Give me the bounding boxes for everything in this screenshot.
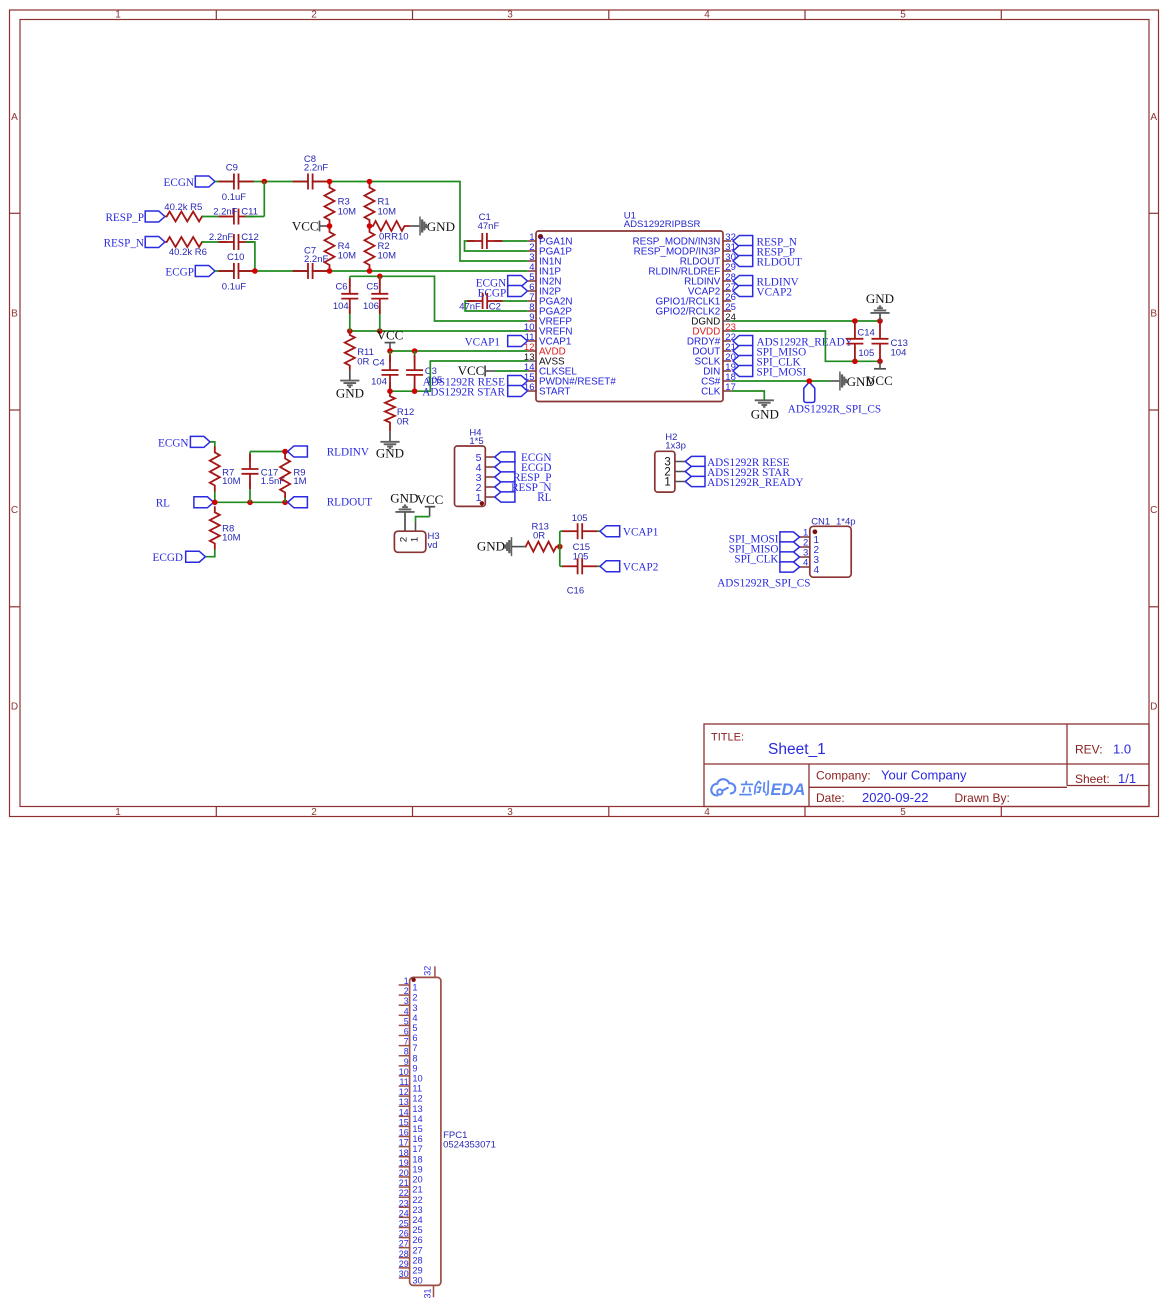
- svg-text:10M: 10M: [222, 532, 241, 543]
- svg-text:B: B: [11, 309, 18, 320]
- power flag VCC at AVDD: [377, 328, 404, 351]
- svg-text:4: 4: [814, 565, 820, 576]
- net flag VCAP2 at pin 27: [733, 286, 792, 299]
- svg-text:29: 29: [399, 1259, 409, 1269]
- U1 pin 10 (VREFN): [524, 322, 573, 338]
- U1 pin 16 (START): [524, 382, 571, 398]
- FPC1 pin 25: [399, 1218, 423, 1235]
- svg-text:SPI_CLK: SPI_CLK: [734, 553, 778, 565]
- net flag RESP_N at pin 32: [733, 236, 797, 249]
- svg-text:10M: 10M: [338, 251, 357, 262]
- junction C17 bottom: [247, 500, 253, 506]
- net flag ADS1292R RESE at pin 15: [423, 376, 528, 389]
- U1 pin 4 (IN1P): [528, 262, 562, 278]
- resistor R13 0R: [525, 521, 558, 551]
- svg-text:vd: vd: [428, 540, 438, 551]
- FPC1 pin 21: [399, 1178, 423, 1195]
- svg-text:28: 28: [412, 1255, 422, 1265]
- wire R8 to ECGD flag: [205, 549, 214, 556]
- svg-text:104: 104: [371, 377, 387, 388]
- svg-text:C10: C10: [227, 252, 244, 263]
- wire R9 bottom: [284, 498, 286, 502]
- svg-text:24: 24: [412, 1215, 422, 1225]
- svg-text:47nF: 47nF: [459, 302, 481, 313]
- net flag ECGD: [153, 551, 206, 564]
- wire junction down to C11: [263, 182, 265, 217]
- svg-text:4: 4: [404, 1006, 409, 1016]
- title block: [704, 724, 1149, 807]
- svg-text:RESP_N: RESP_N: [104, 237, 144, 249]
- svg-text:11: 11: [399, 1077, 408, 1087]
- power flag VCC at R3/R4 node: [292, 219, 330, 234]
- net flag ADS1292R_SPI_CS: [788, 382, 881, 416]
- U1 pin 11 (VCAP1): [525, 332, 572, 348]
- svg-text:15: 15: [399, 1117, 409, 1127]
- svg-text:ECGP: ECGP: [165, 266, 194, 278]
- FPC1 pin 9: [399, 1057, 418, 1074]
- svg-text:12: 12: [412, 1094, 422, 1104]
- ground GND at CS# (sideways): [830, 372, 875, 391]
- U1 pin 30 (RLDOUT): [680, 252, 736, 268]
- svg-text:20: 20: [399, 1168, 409, 1178]
- svg-text:2: 2: [399, 537, 410, 542]
- wire RL rail: [215, 501, 285, 503]
- FPC1 pin 12: [399, 1087, 423, 1104]
- CN1 pin 1: [800, 528, 820, 546]
- FPC1 pin 20: [399, 1168, 423, 1185]
- U1 pin 1 (PGA1N): [528, 232, 573, 248]
- resistor R5 40.2k: [164, 202, 203, 222]
- svg-text:ECGN: ECGN: [164, 177, 194, 189]
- U1 pin 18 (CS#): [701, 372, 736, 388]
- svg-text:30: 30: [399, 1269, 409, 1279]
- svg-text:ECGN: ECGN: [158, 437, 188, 449]
- svg-text:47nF: 47nF: [478, 221, 500, 232]
- net flag ADS1292R STAR at H2 pin 2: [685, 466, 790, 479]
- H4 pin 2: [476, 482, 495, 494]
- svg-text:23: 23: [399, 1198, 409, 1208]
- junction C14 top: [852, 318, 858, 324]
- svg-text:REV:: REV:: [1075, 743, 1103, 757]
- svg-text:ADS1292R_SPI_CS: ADS1292R_SPI_CS: [717, 578, 810, 590]
- svg-text:1x3p: 1x3p: [665, 440, 686, 451]
- wire C16 to VCAP2 flag: [597, 565, 600, 567]
- U1 pin 29 (RLDIN/RLDREF): [648, 262, 735, 278]
- svg-text:5: 5: [900, 807, 906, 818]
- svg-text:104: 104: [333, 301, 349, 312]
- net flag RLDINV at pin 28: [733, 276, 799, 289]
- junction C3 top: [412, 348, 418, 354]
- net flag RESP_N at H4 pin 2: [495, 482, 552, 494]
- svg-text:1: 1: [410, 537, 421, 542]
- FPC1 pin 31 (bottom): [422, 1285, 433, 1298]
- wire DGND (pin 24) to C14/C13 top rail: [731, 320, 880, 322]
- net flag ECGN: [164, 176, 215, 189]
- svg-text:1/1: 1/1: [1118, 771, 1136, 786]
- connector H4 1*5: [455, 428, 486, 507]
- svg-text:24: 24: [399, 1208, 409, 1218]
- svg-text:ECGP: ECGP: [478, 287, 507, 299]
- net flag RLDOUT: [288, 497, 373, 509]
- ground GND below R12: [376, 431, 404, 460]
- svg-text:18: 18: [399, 1148, 409, 1158]
- FPC1 pin 14: [399, 1107, 423, 1124]
- FPC1 pin 18: [399, 1148, 423, 1165]
- H2 pin 3: [664, 457, 685, 469]
- svg-text:17: 17: [399, 1138, 409, 1148]
- svg-text:0R: 0R: [397, 417, 409, 428]
- svg-text:ECGD: ECGD: [153, 552, 183, 564]
- wire C11 to ECGN node: [246, 216, 265, 218]
- svg-text:7: 7: [404, 1037, 409, 1047]
- FPC1 pin 24: [399, 1208, 423, 1225]
- net flag ECGN (lower block): [158, 436, 210, 449]
- svg-text:23: 23: [412, 1205, 422, 1215]
- svg-text:1: 1: [404, 976, 409, 986]
- svg-text:C16: C16: [567, 585, 584, 596]
- wire C1 to pin 1: [495, 240, 528, 242]
- svg-text:VCC: VCC: [292, 219, 319, 234]
- net flag ECGN at H4 pin 5: [495, 452, 552, 464]
- wire node to C15: [560, 530, 563, 532]
- svg-text:RLDOUT: RLDOUT: [757, 256, 803, 268]
- ground GND above C13: [866, 291, 894, 321]
- svg-text:0524353071: 0524353071: [443, 1139, 496, 1150]
- svg-text:4: 4: [803, 558, 808, 569]
- svg-text:9: 9: [412, 1063, 417, 1073]
- capacitor C17 1.5nF: [242, 452, 286, 503]
- net flag ECGN at pin 5: [476, 276, 528, 290]
- svg-text:SPI_MOSI: SPI_MOSI: [757, 366, 807, 378]
- svg-text:10: 10: [412, 1074, 422, 1084]
- power flag VCC below C13: [866, 361, 893, 388]
- U1 pin 32 (RESP_MODN/IN3N): [633, 232, 736, 248]
- wire H3 pin1 lead: [415, 523, 417, 532]
- svg-text:7: 7: [412, 1043, 417, 1053]
- svg-text:2.2nF: 2.2nF: [304, 254, 328, 265]
- FPC1 pin 15: [399, 1117, 423, 1134]
- FPC1 pin 19: [399, 1158, 423, 1175]
- svg-text:8: 8: [412, 1053, 417, 1063]
- wire CLK (pin 17) to GND: [731, 391, 764, 400]
- svg-text:2.2nF: 2.2nF: [209, 232, 233, 243]
- svg-text:GND: GND: [390, 491, 418, 506]
- svg-text:16: 16: [399, 1128, 409, 1138]
- svg-text:104: 104: [891, 347, 907, 358]
- svg-text:Drawn By:: Drawn By:: [955, 791, 1010, 805]
- resistor R2 10M: [365, 226, 397, 271]
- svg-text:C: C: [11, 505, 18, 516]
- svg-text:GND: GND: [866, 291, 894, 306]
- svg-text:5: 5: [412, 1023, 417, 1033]
- svg-text:Date:: Date:: [816, 791, 845, 805]
- junction C3 bottom: [412, 388, 418, 394]
- svg-text:B: B: [1150, 309, 1157, 320]
- svg-text:1: 1: [476, 492, 482, 504]
- U1 pin 9 (VREFP): [528, 312, 573, 328]
- svg-text:1.0: 1.0: [1113, 742, 1131, 757]
- FPC1 pin 16: [399, 1128, 423, 1145]
- capacitor C13 104: [872, 321, 908, 361]
- svg-text:Sheet:: Sheet:: [1075, 772, 1110, 786]
- svg-text:1*5: 1*5: [469, 436, 483, 447]
- svg-text:8: 8: [404, 1047, 409, 1057]
- svg-text:9: 9: [404, 1057, 409, 1067]
- FPC1 pin 1: [399, 976, 418, 993]
- svg-text:105: 105: [858, 348, 874, 359]
- net flag VCAP1: [600, 526, 658, 539]
- svg-text:30: 30: [412, 1276, 422, 1286]
- FPC1 pin 22: [399, 1188, 423, 1205]
- svg-text:25: 25: [412, 1225, 422, 1235]
- wire ECGP row to IN1P (pin 4): [215, 270, 528, 272]
- capacitor C9 0.1uF: [219, 163, 254, 203]
- junction C13 top / GND: [877, 318, 883, 324]
- svg-text:25: 25: [399, 1218, 409, 1228]
- capacitor C1 47nF: [467, 212, 502, 249]
- svg-text:D: D: [1150, 702, 1157, 713]
- U1 pin 20 (SCLK): [695, 352, 736, 368]
- svg-text:ADS1292R STAR: ADS1292R STAR: [422, 386, 505, 398]
- junction RLDINV / R9 top: [282, 449, 288, 455]
- svg-text:RL: RL: [156, 498, 170, 510]
- U1 pin 7 (PGA2N): [528, 292, 573, 308]
- svg-text:1M: 1M: [293, 476, 306, 487]
- capacitor C14 105: [846, 321, 874, 361]
- svg-text:4: 4: [704, 807, 710, 818]
- junction R13/C15/C16: [557, 544, 563, 550]
- resistor R8 10M: [210, 506, 241, 549]
- junction C5 bottom: [377, 328, 383, 334]
- resistor R11 0R: [345, 331, 374, 370]
- svg-text:31: 31: [422, 1288, 432, 1298]
- FPC1 pin 23: [399, 1198, 423, 1215]
- svg-text:TITLE:: TITLE:: [711, 732, 744, 744]
- net flag RL at H4 pin 1: [495, 492, 552, 504]
- svg-text:2: 2: [311, 807, 317, 818]
- net flag at CN1 pin 1: [729, 532, 800, 546]
- U1 pin 15 (PWDN#/RESET#): [524, 372, 616, 388]
- FPC1 pin 3: [399, 996, 418, 1013]
- FPC1 pin 13: [399, 1097, 423, 1114]
- svg-text:GND: GND: [336, 386, 364, 401]
- resistor R3 10M: [325, 182, 357, 227]
- junction R1 top: [367, 179, 373, 185]
- svg-text:27: 27: [412, 1245, 422, 1255]
- svg-text:A: A: [1150, 112, 1157, 123]
- resistor R10 0R: [372, 221, 410, 243]
- U1 pin 26 (GPIO1/RCLK1): [656, 292, 736, 308]
- CN1 pin 4: [800, 558, 820, 576]
- U1 pin 22 (DRDY#): [687, 332, 736, 348]
- wire R6 to C12: [202, 241, 227, 243]
- svg-text:21: 21: [399, 1178, 409, 1188]
- net flag ADS1292R RESE at H2 pin 3: [685, 456, 789, 469]
- capacitor C12 2.2nF: [209, 232, 259, 250]
- resistor R6 40.2k: [165, 237, 207, 258]
- FPC1 pin 26: [399, 1229, 423, 1246]
- FPC1 pin 8: [399, 1047, 418, 1064]
- U1 pin 27 (VCAP2): [688, 282, 736, 298]
- resistor R1 10M: [365, 182, 397, 227]
- svg-text:10: 10: [399, 1067, 409, 1077]
- svg-text:12: 12: [399, 1087, 409, 1097]
- svg-text:16: 16: [524, 382, 535, 393]
- wire pin8 loop: [465, 301, 528, 311]
- net flag at CN1 pin 3: [734, 552, 799, 566]
- svg-text:11: 11: [412, 1084, 422, 1094]
- wire AVSS (pin 13) to C3/C4 bottom rail: [390, 361, 528, 391]
- H4 pin 4: [476, 462, 495, 474]
- svg-text:RLDINV: RLDINV: [327, 446, 369, 458]
- op-amp/afe U1 ADS1292RIPBSR: [536, 211, 723, 402]
- ground GND at R13 (sideways): [477, 537, 525, 556]
- svg-text:3: 3: [507, 9, 513, 20]
- capacitor C8 2.2nF: [293, 154, 329, 190]
- svg-text:19: 19: [412, 1164, 422, 1174]
- junction VCC/C4 top: [387, 348, 393, 354]
- FPC1 pin 29: [399, 1259, 423, 1276]
- svg-text:13: 13: [399, 1097, 409, 1107]
- svg-text:105: 105: [572, 513, 588, 524]
- net flag ECGD at H4 pin 4: [495, 462, 552, 474]
- svg-text:1: 1: [412, 983, 417, 993]
- svg-text:GND: GND: [427, 219, 455, 234]
- U1 pin 28 (RLDINV): [684, 272, 736, 288]
- wire CS# (pin 18) to GND: [731, 380, 829, 382]
- svg-text:10M: 10M: [378, 206, 397, 217]
- U1 pin 31 (RESP_MODP/IN3P): [634, 242, 736, 258]
- svg-text:0R: 0R: [533, 531, 545, 542]
- svg-text:0R: 0R: [357, 357, 369, 368]
- svg-text:14: 14: [412, 1114, 422, 1124]
- svg-text:CLK: CLK: [701, 387, 721, 398]
- svg-text:10M: 10M: [222, 476, 241, 487]
- net flag ECGP at pin 6: [478, 286, 528, 300]
- U1 pin 25 (GPIO2/RCLK2): [656, 302, 736, 318]
- capacitor C6 104: [333, 276, 358, 331]
- H2 pin 1: [664, 477, 685, 489]
- svg-text:40.2k R6: 40.2k R6: [169, 247, 207, 258]
- svg-text:C14: C14: [857, 327, 874, 338]
- svg-text:ADS1292R_READY: ADS1292R_READY: [707, 477, 803, 489]
- junction R9 bottom / RLDOUT: [282, 500, 288, 506]
- svg-text:40.2k R5: 40.2k R5: [164, 202, 202, 213]
- wire DVDD (pin 23) to C14/C13 bottom rail: [731, 331, 880, 361]
- junction R1/R10 node: [367, 223, 373, 229]
- svg-text:13: 13: [412, 1104, 422, 1114]
- svg-text:2020-09-22: 2020-09-22: [862, 790, 929, 805]
- net flag RESP_P at H4 pin 3: [495, 472, 552, 484]
- svg-text:RL: RL: [537, 492, 551, 504]
- junction node C9/C11: [262, 179, 268, 185]
- connector H3 vd: [394, 531, 439, 552]
- svg-text:D: D: [11, 702, 18, 713]
- svg-text:3: 3: [507, 807, 513, 818]
- net flag at CN1 pin 4: [780, 562, 800, 572]
- U1 pin 14 (CLKSEL): [524, 362, 577, 378]
- U1 pin 8 (PGA2P): [528, 302, 573, 318]
- net flag RESP_P at pin 31: [733, 246, 795, 259]
- svg-text:C4: C4: [373, 357, 385, 368]
- svg-text:27: 27: [399, 1239, 409, 1249]
- net flag VCAP2: [600, 561, 658, 574]
- net flag at CN1 pin 2: [729, 542, 800, 556]
- svg-text:29: 29: [412, 1265, 422, 1275]
- svg-text:2.2nF: 2.2nF: [304, 162, 328, 173]
- junction C13 bottom / VCC: [877, 359, 883, 365]
- U1 pin 2 (PGA1P): [528, 242, 573, 258]
- ground GND below R11: [336, 370, 364, 401]
- connector FPC1 0524353071: [410, 977, 496, 1285]
- svg-text:Your Company: Your Company: [881, 767, 967, 782]
- capacitor C10 0.1uF: [219, 252, 254, 293]
- svg-text:4: 4: [704, 9, 710, 20]
- U1 pin 24 (DGND): [691, 312, 736, 328]
- wire AVDD rail to pin 12: [390, 350, 528, 352]
- U1 pin 13 (AVSS): [524, 352, 565, 368]
- capacitor C2 47nF: [459, 293, 502, 313]
- svg-text:19: 19: [399, 1158, 409, 1168]
- svg-text:Sheet_1: Sheet_1: [768, 741, 826, 758]
- svg-text:26: 26: [412, 1235, 422, 1245]
- resistor R12 0R: [385, 391, 414, 431]
- wire VREFN rail to pin 10: [350, 330, 528, 332]
- net flag RESP_N: [104, 237, 165, 250]
- wire R5 to C11: [202, 216, 227, 218]
- H2 pin 2: [664, 467, 685, 479]
- capacitor C3 105: [406, 351, 442, 391]
- CN1 pin 2: [800, 538, 820, 556]
- svg-text:0.1uF: 0.1uF: [222, 282, 246, 293]
- U1 pin 23 (DVDD): [692, 322, 736, 338]
- junction C4 bottom: [387, 388, 393, 394]
- svg-text:10M: 10M: [378, 251, 397, 262]
- svg-text:2.2nF: 2.2nF: [213, 207, 237, 218]
- ground GND below pin 17: [751, 400, 779, 421]
- junction C14 bottom: [852, 359, 858, 365]
- wire node to C16: [560, 565, 563, 567]
- wire VCC to H3 pin 1: [416, 517, 430, 523]
- U1 pin 3 (IN1N): [528, 252, 562, 268]
- net flag ADS1292R_READY at H2 pin 1: [685, 476, 803, 489]
- svg-text:ADS1292RIPBSR: ADS1292RIPBSR: [624, 219, 701, 230]
- svg-text:0.1uF: 0.1uF: [222, 192, 246, 203]
- junction R2 bottom / ECGP row: [367, 268, 373, 274]
- svg-text:5: 5: [900, 9, 906, 20]
- svg-text:1: 1: [115, 9, 121, 20]
- svg-text:VCC: VCC: [377, 328, 404, 343]
- svg-text:VCAP1: VCAP1: [623, 527, 658, 539]
- svg-text:EDA: EDA: [771, 781, 806, 799]
- svg-text:6: 6: [412, 1033, 417, 1043]
- resistor R7 10M: [210, 446, 241, 491]
- FPC1 pin 11: [399, 1077, 422, 1094]
- svg-text:3: 3: [404, 996, 409, 1006]
- U1 pin 12 (AVDD): [524, 342, 566, 358]
- net flag VCAP1 at pin 11: [465, 336, 528, 349]
- svg-text:RLDOUT: RLDOUT: [327, 497, 373, 509]
- net flag RESP_P: [105, 211, 164, 224]
- FPC1 pin 6: [399, 1027, 418, 1044]
- svg-text:C: C: [1150, 505, 1157, 516]
- svg-text:GND: GND: [477, 538, 505, 553]
- FPC1 pin 7: [399, 1037, 418, 1054]
- LCEDA logo: [711, 779, 805, 799]
- svg-text:C9: C9: [226, 163, 238, 174]
- FPC1 pin 10: [399, 1067, 423, 1084]
- svg-text:START: START: [539, 387, 570, 398]
